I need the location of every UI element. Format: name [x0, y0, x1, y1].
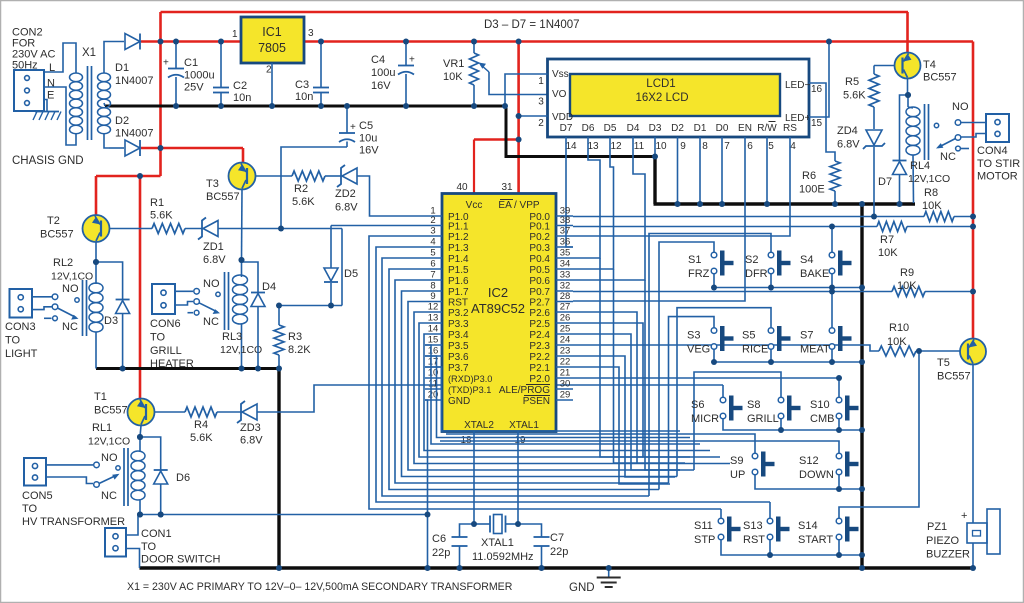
wire S1 feed riser [659, 242, 714, 490]
svg-text:S14: S14 [798, 520, 818, 532]
svg-text:P3.5: P3.5 [448, 341, 469, 352]
svg-text:S1: S1 [688, 254, 701, 266]
wire S2 feed riser [649, 234, 771, 497]
svg-text:VO: VO [552, 89, 567, 100]
ground jog down [505, 105, 508, 157]
node D6 anode [158, 512, 164, 518]
svg-text:TO: TO [150, 332, 166, 344]
wire IC2 GND pin20 [425, 400, 428, 568]
svg-text:6.8V: 6.8V [203, 254, 226, 266]
wire D3 branch [96, 262, 123, 300]
svg-text:P2.2: P2.2 [529, 352, 550, 363]
wire RL1 coil bottom [139, 500, 141, 515]
wire ZD4 to P0.0 line [873, 147, 875, 217]
svg-text:EA / VPP: EA / VPP [498, 200, 539, 211]
svg-text:P1.2: P1.2 [448, 232, 469, 243]
wire LCD D2 gnd [677, 137, 679, 204]
svg-text:D7: D7 [560, 123, 573, 134]
svg-text:GND: GND [569, 582, 595, 594]
wire RL2 coil lead [95, 262, 97, 284]
svg-text:25: 25 [560, 324, 571, 335]
svg-text:RL4: RL4 [910, 160, 930, 172]
ground lcd rail [654, 202, 916, 205]
svg-text:TO: TO [141, 541, 157, 553]
transistor T2 [83, 215, 110, 242]
svg-text:P2.6: P2.6 [529, 308, 550, 319]
svg-text:8: 8 [702, 141, 708, 152]
svg-text:VR1: VR1 [443, 58, 464, 70]
svg-text:ZD2: ZD2 [335, 188, 356, 200]
svg-text:P1.6: P1.6 [448, 276, 469, 287]
relay RL2 NC contact [44, 317, 52, 319]
wire row2 gnd [714, 349, 862, 362]
wire T3 base [256, 175, 293, 177]
svg-text:R3: R3 [288, 331, 302, 343]
wire P0.1 row [573, 226, 877, 228]
wire T4 base [874, 65, 895, 67]
resistor R10 [879, 346, 916, 356]
wire bus pin12 [414, 312, 730, 464]
wire EA/VPP red vertical [517, 42, 520, 194]
wire S12 gnd stub [838, 475, 840, 489]
svg-text:P2.1: P2.1 [529, 363, 550, 374]
svg-text:R10: R10 [889, 322, 909, 334]
svg-text:HV TRANSFORMER: HV TRANSFORMER [22, 516, 125, 528]
svg-text:D4: D4 [627, 123, 640, 134]
svg-text:NC: NC [203, 316, 219, 328]
svg-text:P0.6: P0.6 [529, 276, 550, 287]
svg-text:10K: 10K [878, 247, 898, 259]
connector CON3 [10, 289, 33, 318]
switch S2 DFR [768, 252, 774, 258]
svg-text:10n: 10n [233, 92, 251, 104]
svg-text:12: 12 [428, 302, 439, 313]
wire S13 stub [769, 502, 771, 518]
svg-text:CON4: CON4 [977, 145, 1008, 157]
wire RL1 return [140, 514, 428, 516]
switch S11 STP [718, 518, 724, 524]
resistor R8 [924, 212, 954, 222]
wire D4 branch [242, 262, 259, 293]
svg-text:XTAL1: XTAL1 [509, 420, 539, 431]
capacitor C7 [518, 524, 542, 537]
svg-text:LIGHT: LIGHT [5, 348, 38, 360]
svg-text:100u: 100u [371, 67, 395, 79]
wire S7 gnd stub [831, 349, 833, 362]
wire P1.1 line [331, 225, 425, 227]
node T4 collector [905, 92, 911, 98]
wire R4 to ZD3 [217, 411, 241, 413]
svg-text:NO: NO [203, 278, 220, 290]
resistor R5 [873, 66, 875, 75]
svg-text:P2.4: P2.4 [529, 330, 550, 341]
svg-text:START: START [798, 534, 833, 546]
switch S8 GRILL [778, 397, 784, 403]
svg-text:PIEZO: PIEZO [926, 535, 959, 547]
svg-text:T3: T3 [206, 178, 219, 190]
wire P2.6 drop [573, 312, 685, 463]
svg-text:16V: 16V [359, 145, 379, 157]
relay RL3 pole1 [175, 290, 193, 292]
svg-text:12V,1CO: 12V,1CO [51, 271, 93, 283]
wire bus pin14 [424, 334, 710, 451]
relay RL2 core [82, 280, 84, 336]
relay RL2 pole1 [32, 296, 52, 298]
wire CON1 pin1 [126, 515, 138, 536]
resistor R9 [892, 287, 925, 297]
wire secondary top [104, 42, 124, 74]
wire +12V top rail [161, 11, 909, 14]
svg-text:D3: D3 [649, 123, 662, 134]
wire Vcc vertical [473, 140, 475, 194]
svg-text:10: 10 [655, 141, 667, 152]
wire S4 feed [831, 227, 833, 253]
svg-text:P0.7: P0.7 [529, 287, 550, 298]
wire RL4 coil top [907, 95, 909, 107]
wire LCD D5 to P0 [573, 137, 614, 269]
svg-text:10K: 10K [897, 280, 917, 292]
svg-text:Vcc: Vcc [466, 200, 483, 211]
svg-text:BC557: BC557 [206, 191, 240, 203]
svg-text:BC557: BC557 [937, 371, 971, 383]
relay RL4 core [924, 104, 926, 160]
svg-text:BAKE: BAKE [800, 268, 829, 280]
svg-text:10u: 10u [359, 133, 377, 145]
wire R1 to ZD1 [185, 228, 202, 230]
diode D6 [154, 471, 168, 484]
wire D5 column drop [614, 269, 638, 463]
svg-text:C5: C5 [359, 120, 373, 132]
wire IC1 gnd pin [271, 63, 273, 106]
wire LCD R/W gnd [766, 137, 768, 204]
capacitor C3 [313, 87, 329, 89]
svg-text:D0: D0 [716, 123, 729, 134]
zener ZD3 [237, 401, 245, 423]
svg-text:100E: 100E [799, 184, 825, 196]
wire S14 feed [839, 351, 919, 518]
svg-text:P0.2: P0.2 [529, 232, 550, 243]
svg-text:2: 2 [266, 65, 272, 76]
svg-text:T1: T1 [94, 391, 107, 403]
svg-text:P0.1: P0.1 [529, 222, 550, 233]
svg-text:D3 – D7 = 1N4007: D3 – D7 = 1N4007 [484, 19, 580, 31]
relay RL4 NO contact line [961, 122, 986, 124]
svg-text:35: 35 [560, 248, 571, 259]
svg-text:27: 27 [560, 302, 571, 313]
wire XTAL1 pin19 [517, 432, 519, 525]
svg-text:R4: R4 [194, 419, 208, 431]
svg-text:P3.4: P3.4 [448, 330, 469, 341]
relay RL1 pole1 [46, 464, 93, 466]
wire CON1 pin2 [126, 549, 140, 569]
wire center tap [104, 103, 105, 106]
IC2 left pins [425, 215, 442, 217]
switch S10 CMB [836, 397, 842, 403]
svg-text:1N4007: 1N4007 [115, 128, 154, 140]
wire bus pin8 [402, 291, 678, 477]
svg-text:S4: S4 [800, 254, 813, 266]
svg-text:DFR: DFR [745, 268, 768, 280]
wire D6 branch [140, 437, 161, 470]
svg-text:TO STIR: TO STIR [977, 158, 1020, 170]
svg-text:C7: C7 [550, 532, 564, 544]
svg-text:XTAL2: XTAL2 [464, 420, 494, 431]
svg-text:P2.5: P2.5 [529, 319, 550, 330]
wire LCD D4 to P0 [573, 137, 645, 280]
wire P2.5 drop [573, 323, 690, 457]
relay RL2 NO point [75, 298, 79, 302]
wire P2.2 drop [573, 356, 675, 477]
svg-text:6.8V: 6.8V [240, 435, 263, 447]
wire bus pin15 [425, 345, 700, 444]
svg-text:38: 38 [560, 215, 571, 226]
capacitor C4 [398, 65, 414, 67]
svg-text:VDD: VDD [552, 112, 573, 123]
svg-text:MOTOR: MOTOR [977, 171, 1018, 183]
svg-text:11.0592MHz: 11.0592MHz [472, 551, 534, 563]
svg-text:PZ1: PZ1 [927, 521, 947, 533]
wire bus pin7 [395, 280, 669, 483]
relay RL3 pole2 [175, 302, 193, 306]
svg-text:R/W: R/W [757, 123, 777, 134]
wire D7 branch [900, 95, 909, 161]
svg-text:IC1: IC1 [262, 25, 282, 39]
wire S7 feed [831, 292, 833, 328]
svg-text:5.6K: 5.6K [292, 196, 315, 208]
svg-text:22p: 22p [432, 547, 450, 559]
svg-text:BC557: BC557 [94, 405, 128, 417]
svg-text:LED−: LED− [785, 80, 810, 91]
svg-text:4: 4 [430, 237, 435, 248]
wire T1 collector [140, 426, 141, 438]
capacitor C2 [213, 87, 229, 89]
relay RL2 coil [89, 283, 103, 293]
wire bus pin13 [419, 323, 720, 457]
svg-text:RST: RST [743, 534, 765, 546]
capacitor C1 [168, 68, 184, 70]
svg-text:CHASIS GND: CHASIS GND [12, 155, 84, 167]
transistor T3 [229, 163, 256, 190]
svg-text:GRILL: GRILL [747, 413, 779, 425]
svg-text:2: 2 [430, 215, 435, 226]
wire P0.7 row [573, 291, 892, 293]
relay RL3 core [224, 272, 226, 330]
relay RL3 NO point [216, 292, 220, 296]
wire T3 emitter red [242, 148, 245, 163]
svg-text:Vss: Vss [552, 69, 569, 80]
svg-text:STP: STP [694, 534, 715, 546]
wire ZD2 to P1.0 [357, 176, 425, 216]
svg-text:+: + [350, 122, 356, 133]
svg-text:D7: D7 [878, 176, 892, 188]
svg-text:6.8V: 6.8V [837, 139, 860, 151]
wire P2.1 drop [573, 367, 670, 484]
wire LCD EN [573, 137, 745, 301]
diode D3 [116, 301, 130, 314]
wire RL4 coil bottom [912, 155, 915, 203]
ground vertical right [860, 204, 863, 568]
svg-text:P1.5: P1.5 [448, 265, 469, 276]
svg-text:31: 31 [501, 182, 513, 193]
svg-text:10K: 10K [887, 336, 907, 348]
svg-text:12V,1CO: 12V,1CO [88, 436, 130, 448]
svg-text:12: 12 [610, 141, 622, 152]
wire S8 feed riser [694, 372, 781, 470]
wire node A line [279, 305, 342, 307]
svg-text:TO: TO [22, 503, 38, 515]
wire +5V rail (IC1 output) [304, 40, 973, 43]
svg-text:NC: NC [62, 321, 78, 333]
switch S12 DOWN [836, 453, 842, 459]
switch S3 VEG [711, 328, 717, 334]
node RL1 bottom [137, 512, 143, 518]
wire LCD D6 to P0 [573, 137, 600, 258]
wire P2.0 row [573, 377, 839, 379]
wire D4 column drop [645, 280, 680, 470]
svg-text:9: 9 [430, 291, 435, 302]
svg-text:NC: NC [940, 151, 956, 163]
svg-text:P0.4: P0.4 [529, 254, 550, 265]
svg-text:D2: D2 [671, 123, 684, 134]
svg-text:5.6K: 5.6K [150, 210, 173, 222]
wire bus pin9 [408, 302, 694, 471]
svg-text:UP: UP [730, 469, 745, 481]
svg-text:C6: C6 [432, 533, 446, 545]
wire +5V vertical right [972, 42, 975, 339]
wire PZ1 gnd [972, 543, 974, 568]
svg-text:R6: R6 [802, 170, 816, 182]
ground symbol GND [608, 568, 610, 578]
svg-text:3: 3 [538, 97, 544, 108]
svg-text:P0.5: P0.5 [529, 265, 550, 276]
transformer X1 core [87, 66, 89, 140]
switch S9 UP [752, 453, 758, 459]
piezo buzzer PZ1 [967, 523, 987, 543]
svg-text:P2.0: P2.0 [529, 374, 550, 385]
svg-text:S13: S13 [743, 520, 763, 532]
wire N to primary [44, 87, 76, 145]
relay RL2 lever [58, 308, 77, 318]
wire S10 gnd stub [838, 419, 840, 430]
svg-text:CON5: CON5 [22, 490, 53, 502]
relay RL4 lever [938, 139, 956, 148]
svg-text:S10: S10 [810, 399, 830, 411]
svg-text:ZD1: ZD1 [203, 241, 224, 253]
relay RL1 NO point [116, 466, 120, 470]
wire T2 emitter red [95, 176, 98, 215]
wire C5 to node [281, 147, 347, 229]
connector CON6 [152, 284, 175, 314]
wire bus pin17 [425, 367, 680, 431]
wire RL1 coil lead [139, 437, 141, 452]
svg-text:P3.6: P3.6 [448, 352, 469, 363]
svg-text:6: 6 [430, 259, 435, 270]
svg-text:R1: R1 [150, 197, 164, 209]
chassis ground symbol [35, 111, 59, 113]
svg-text:R5: R5 [845, 76, 859, 88]
IC2 AT89C52 [442, 194, 556, 432]
svg-text:10n: 10n [295, 91, 313, 103]
svg-text:13: 13 [587, 141, 599, 152]
zener ZD1 [198, 218, 206, 240]
wire S2 gnd stub [770, 274, 772, 288]
svg-text:21: 21 [560, 368, 571, 379]
svg-text:1: 1 [538, 76, 544, 87]
wire T2 collector [95, 242, 97, 262]
wire 12V vertical left [159, 12, 162, 176]
connector CON2 [14, 70, 44, 111]
svg-text:26: 26 [560, 313, 571, 324]
relay RL4 NO point [934, 123, 938, 127]
svg-text:+: + [163, 58, 169, 69]
svg-text:5.6K: 5.6K [843, 90, 866, 102]
svg-text:RICE: RICE [742, 344, 768, 356]
switch S14 START [836, 518, 842, 524]
svg-text:T4: T4 [923, 59, 936, 71]
wire row4 gnd [755, 475, 862, 489]
wire R2 to ZD2 [325, 175, 341, 177]
svg-text:NC: NC [101, 490, 117, 502]
svg-text:PSEN: PSEN [523, 396, 550, 407]
svg-text:16: 16 [428, 346, 439, 357]
wire LCD D1 gnd [699, 137, 701, 204]
relay RL1 lever [99, 475, 117, 484]
transistor T5 [960, 339, 986, 365]
wire bus pin5 [382, 258, 649, 496]
wire S8 gnd stub [780, 419, 782, 430]
potentiometer VR1 [470, 53, 479, 85]
wire LCD D0 gnd [721, 137, 723, 204]
wire row1 gnd [714, 274, 862, 288]
wire T4 emitter red [906, 12, 909, 53]
resistor R7 [877, 222, 907, 232]
wire row5 gnd [721, 540, 862, 555]
svg-text:CON3: CON3 [5, 321, 36, 333]
wire LCD RS [573, 137, 790, 236]
relay RL1 coil [131, 451, 145, 461]
svg-text:22: 22 [560, 357, 571, 368]
wire LCD D3 gnd [654, 137, 656, 155]
svg-text:D3: D3 [104, 315, 118, 327]
wire D7 anode [899, 175, 901, 203]
svg-text:D4: D4 [262, 281, 276, 293]
wire S13 gnd stub [769, 540, 771, 555]
switch S7 MEAT [829, 328, 835, 334]
svg-text:IC2: IC2 [488, 285, 508, 300]
svg-text:S12: S12 [799, 455, 819, 467]
svg-text:8: 8 [430, 281, 435, 292]
diode D2 [125, 140, 140, 156]
svg-text:10K: 10K [922, 200, 942, 212]
transistor T4 [895, 53, 921, 79]
svg-text:TO: TO [5, 335, 21, 347]
wire D6 column drop [600, 258, 643, 457]
svg-text:P1.4: P1.4 [448, 254, 469, 265]
switch S6 MICR [720, 397, 726, 403]
svg-text:P1.7: P1.7 [448, 287, 469, 298]
svg-text:HEATER: HEATER [150, 358, 194, 370]
diode D5 [324, 268, 338, 281]
relay RL4 coil [906, 107, 920, 117]
svg-text:C3: C3 [295, 79, 309, 91]
svg-text:C2: C2 [233, 80, 247, 92]
svg-text:24: 24 [560, 335, 571, 346]
svg-text:R2: R2 [294, 183, 308, 195]
svg-text:D5: D5 [604, 123, 617, 134]
svg-text:E: E [47, 90, 54, 102]
wire RL3 coil bottom [241, 324, 243, 369]
svg-text:12V,1CO: 12V,1CO [908, 173, 950, 185]
